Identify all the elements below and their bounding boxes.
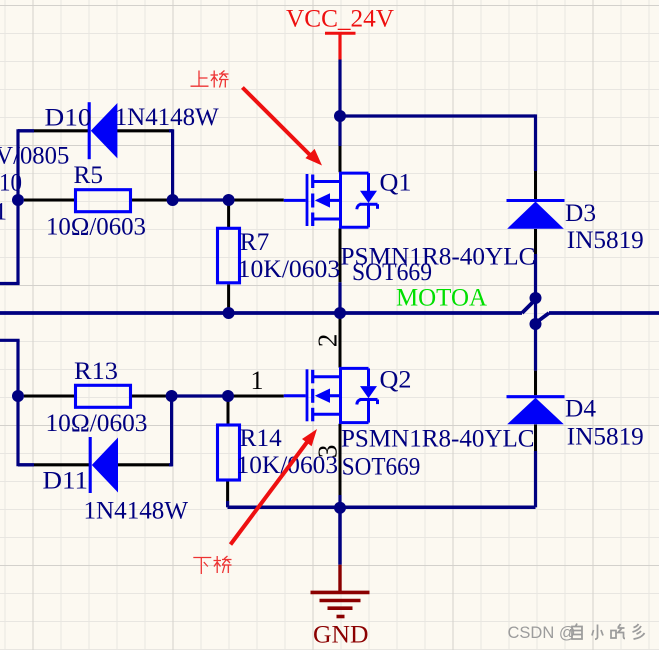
svg-text:1: 1 bbox=[251, 366, 264, 395]
svg-text:V/0805: V/0805 bbox=[0, 143, 69, 170]
svg-text:D4: D4 bbox=[565, 396, 596, 423]
svg-text:CSDN @: CSDN @ bbox=[508, 624, 576, 642]
svg-text:R7: R7 bbox=[240, 229, 269, 256]
svg-text:R5: R5 bbox=[74, 162, 104, 189]
svg-text:IN5819: IN5819 bbox=[567, 227, 644, 254]
svg-text:10Ω/0603: 10Ω/0603 bbox=[46, 410, 148, 437]
svg-text:D11: D11 bbox=[43, 468, 89, 495]
svg-text:R14: R14 bbox=[240, 425, 282, 452]
svg-text:Q2: Q2 bbox=[380, 367, 412, 394]
svg-text:PSMN1R8-40YLC: PSMN1R8-40YLC bbox=[341, 426, 535, 453]
svg-text:Q1: Q1 bbox=[380, 170, 412, 197]
svg-text:1N4148W: 1N4148W bbox=[115, 104, 219, 131]
svg-text:MOTOA: MOTOA bbox=[396, 285, 487, 312]
svg-text:VCC_24V: VCC_24V bbox=[286, 6, 394, 33]
svg-text:10: 10 bbox=[0, 170, 22, 197]
svg-text:SOT669: SOT669 bbox=[352, 259, 432, 286]
svg-text:10K/0603: 10K/0603 bbox=[238, 256, 341, 283]
svg-text:3: 3 bbox=[312, 445, 342, 459]
svg-text:SOT669: SOT669 bbox=[342, 454, 421, 481]
svg-text:1N4148W: 1N4148W bbox=[84, 498, 189, 525]
svg-text:IN5819: IN5819 bbox=[567, 423, 644, 450]
svg-text:R13: R13 bbox=[74, 358, 118, 385]
svg-text:D3: D3 bbox=[565, 200, 596, 227]
svg-text:1: 1 bbox=[0, 199, 7, 226]
svg-text:GND: GND bbox=[313, 622, 369, 649]
svg-text:10Ω/0603: 10Ω/0603 bbox=[46, 214, 146, 241]
svg-text:2: 2 bbox=[313, 334, 343, 348]
svg-text:D10: D10 bbox=[45, 104, 92, 131]
